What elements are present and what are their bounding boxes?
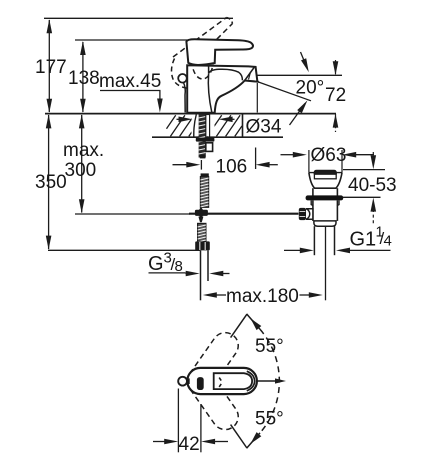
deck bottom line	[152, 136, 283, 138]
wire pop-up rod line	[75, 213, 190, 215]
dim max180	[203, 292, 217, 298]
svg-text:20°: 20°	[296, 78, 325, 99]
handle swing dashed outline upper	[182, 328, 243, 400]
drain lever knob	[299, 208, 306, 220]
dim 138 vertical line	[82, 42, 84, 112]
drain plug cap	[314, 170, 337, 174]
drain bottom collar	[314, 221, 336, 226]
svg-text:72: 72	[325, 85, 346, 106]
faucet lever handle	[186, 39, 253, 65]
wire spout level line	[257, 74, 342, 76]
55deg radial line upper	[231, 314, 247, 337]
knob link top view	[187, 378, 190, 384]
dim 40-53 top	[343, 169, 385, 171]
dim 72 arrows	[335, 60, 337, 75]
pop-up knob circle	[178, 74, 187, 83]
hose lower braided	[198, 223, 206, 241]
svg-text:G: G	[148, 253, 164, 275]
svg-text:Ø34: Ø34	[246, 117, 282, 138]
svg-text:G1: G1	[350, 229, 377, 251]
dim 42 left extension	[177, 389, 179, 453]
lever raised (dashed) tip	[227, 18, 233, 24]
dim 42 right extension	[200, 404, 202, 452]
swing arc end lower	[247, 433, 260, 448]
dim O34 arrows	[177, 118, 181, 120]
svg-text:max.45: max.45	[99, 71, 161, 92]
shank tip	[200, 155, 206, 158]
deck hole white gap	[192, 115, 215, 137]
svg-text:max.180: max.180	[226, 286, 299, 307]
handle swing arc dashed	[260, 329, 279, 433]
dim G3/8 leader	[149, 272, 186, 274]
cartridge mark bar	[197, 377, 204, 390]
drain tailpipe	[313, 226, 315, 255]
lever raised (dashed) upper edge	[173, 18, 227, 58]
drain lever link	[306, 209, 313, 220]
hose upper braided	[200, 177, 208, 208]
G3/8 nut	[195, 241, 210, 250]
svg-text:106: 106	[216, 157, 248, 178]
rod joint	[195, 210, 208, 216]
svg-text:138: 138	[68, 68, 100, 89]
pop-up rod in hole	[194, 115, 197, 137]
drain flange	[309, 172, 342, 174]
dim G1 1/4 leader	[284, 249, 302, 251]
faucet top view body	[187, 368, 257, 394]
dim max.45 leader	[100, 90, 161, 92]
svg-text:300: 300	[65, 160, 97, 181]
svg-text:55°: 55°	[255, 336, 284, 357]
dim 106 left arrow	[173, 164, 191, 166]
svg-text:350: 350	[35, 172, 67, 193]
dim O63 arrows	[281, 154, 295, 156]
wire 20deg spray line	[257, 82, 311, 101]
dim 40-53 bottom	[343, 196, 381, 198]
lever top view mid cap	[247, 371, 255, 391]
dim 42 arrows	[153, 441, 166, 443]
svg-text:Ø63: Ø63	[311, 145, 347, 166]
lever top view outline	[214, 373, 252, 389]
spout inner arch left leg	[208, 73, 212, 112]
svg-text:177: 177	[35, 57, 67, 78]
spout outlet extension line	[256, 83, 258, 113]
wire top reference line (tip of raised lever)	[44, 17, 233, 19]
svg-text:42: 42	[179, 434, 200, 455]
drain body upper	[312, 188, 314, 195]
shank nut	[206, 143, 213, 152]
pop-up knob rod	[184, 83, 186, 113]
dim 106 right ref	[255, 148, 257, 170]
wire deck top line	[45, 113, 336, 115]
lever raised (dashed) lower edge	[198, 24, 233, 59]
top view centerline	[257, 380, 282, 382]
shank locknut flange	[196, 138, 215, 142]
supply pipe	[200, 251, 202, 301]
handle swing dashed outline lower	[182, 363, 243, 435]
drain body lower	[312, 200, 314, 221]
dim 350 vertical line	[48, 115, 50, 249]
swing arc end upper	[247, 314, 260, 329]
dim 177 vertical line	[48, 20, 50, 112]
drain centerline	[325, 227, 327, 300]
55deg radial line lower	[231, 425, 247, 448]
wire 350 bottom reference line	[48, 249, 200, 251]
mounting shank threaded	[199, 115, 206, 158]
deck right edge	[242, 114, 244, 138]
hose top cap	[201, 173, 209, 176]
aerator detail	[249, 72, 251, 80]
lever raised (dashed) knob outline	[171, 59, 190, 89]
pop-up knob top view	[178, 377, 187, 386]
dim max.300 vertical line	[81, 115, 83, 213]
dim leader arrow to spout line	[301, 52, 308, 69]
drain washer lip	[311, 200, 339, 205]
O63 extension right	[341, 150, 343, 173]
aerator face line	[245, 67, 254, 80]
rod lower end	[198, 217, 203, 223]
O63 extension left	[308, 150, 310, 173]
dim 20deg leader arrow	[290, 104, 306, 126]
faucet body	[187, 65, 258, 113]
deck hatching	[167, 115, 176, 129]
svg-text:max.: max.	[63, 140, 104, 161]
lever top view ticks	[219, 378, 221, 381]
wire 138 reference line (top of lever)	[75, 39, 194, 41]
drain washer	[306, 195, 344, 200]
svg-text:40-53: 40-53	[348, 175, 397, 196]
spout inner arch	[208, 65, 210, 73]
svg-text:4: 4	[384, 233, 392, 250]
shank second pipe	[206, 115, 210, 141]
svg-text:55°: 55°	[255, 409, 284, 430]
cartridge dome (dashed ellipse)	[192, 40, 214, 79]
